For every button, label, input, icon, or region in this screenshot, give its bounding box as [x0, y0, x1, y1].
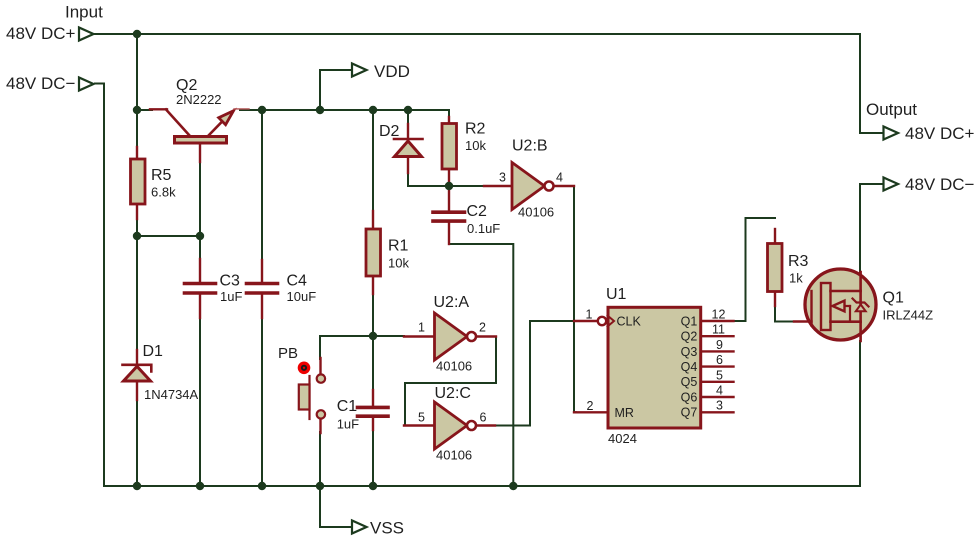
svg-text:D1: D1: [143, 343, 164, 360]
junction oscillator node: [369, 332, 377, 340]
svg-text:R1: R1: [388, 238, 409, 255]
svg-text:Q2: Q2: [681, 330, 698, 344]
junction Q2 collector: [133, 106, 141, 114]
svg-text:C2: C2: [467, 203, 488, 220]
svg-text:C4: C4: [287, 273, 308, 290]
svg-text:1N4734A: 1N4734A: [144, 387, 199, 402]
wire VDD horizontal run: [240, 110, 449, 118]
junction ground rail D1: [133, 482, 141, 490]
svg-text:Q1: Q1: [681, 314, 698, 328]
capacitor C1: [358, 390, 389, 430]
MOSFET Q1: [794, 269, 876, 341]
svg-text:1: 1: [418, 321, 425, 335]
wire emitter node to C4: [261, 110, 263, 261]
capacitor C3: [185, 259, 216, 318]
svg-text:6: 6: [480, 411, 487, 425]
wire node to D2 cathode: [407, 110, 409, 125]
svg-text:IRLZ44Z: IRLZ44Z: [883, 308, 934, 323]
wire R1 bottom to node: [372, 293, 374, 336]
wire oscillator node run: [320, 335, 404, 337]
junction ground rail VSS: [316, 482, 324, 490]
zener diode D1: [123, 350, 152, 400]
wire R3 bottom to Q1 gate: [775, 305, 794, 322]
svg-text:VDD: VDD: [374, 62, 410, 81]
wire output DC+ drop: [860, 34, 883, 133]
svg-text:12: 12: [712, 308, 726, 322]
wire VSS branch: [320, 486, 352, 527]
junction R2 bottom node: [445, 182, 453, 190]
inverter U2:B: [484, 163, 574, 210]
resistor R1: [366, 211, 381, 294]
svg-text:9: 9: [716, 338, 723, 352]
svg-text:1uF: 1uF: [337, 417, 359, 432]
power terminal VSS: [352, 521, 367, 534]
junction ground rail C1: [369, 482, 377, 490]
wire node to PB top: [319, 336, 321, 359]
inverter U2:C: [404, 402, 495, 449]
svg-text:1k: 1k: [789, 271, 803, 286]
svg-text:C1: C1: [337, 398, 358, 415]
svg-text:Q3: Q3: [681, 345, 698, 359]
wire 48V DC+ top rail: [94, 33, 861, 35]
junction VDD tap: [316, 106, 324, 114]
svg-text:U2:B: U2:B: [512, 138, 548, 155]
junction top rail x137: [133, 30, 141, 38]
terminal arrow output 48V DC+: [884, 127, 899, 140]
svg-text:6: 6: [716, 353, 723, 367]
svg-text:2: 2: [587, 399, 594, 413]
terminal arrow output 48V DC-: [884, 178, 899, 191]
svg-text:4024: 4024: [608, 431, 637, 446]
svg-text:D2: D2: [379, 123, 400, 140]
svg-text:10uF: 10uF: [287, 289, 317, 304]
junction Q2 base node: [196, 232, 204, 240]
terminal arrow input 48V DC+: [79, 28, 94, 41]
svg-text:R5: R5: [151, 167, 172, 184]
wire D1 anode to ground rail: [136, 399, 138, 486]
wire R2 node to U2:B input: [449, 185, 484, 187]
wire bottom ground rail: [104, 485, 860, 487]
wire node R5 to Q2 base node: [137, 235, 200, 237]
capacitor C2: [433, 186, 465, 244]
junction ground rail C4: [258, 482, 266, 490]
terminal arrow input 48V DC-: [79, 78, 94, 91]
wire node to C1 top: [372, 336, 374, 391]
svg-text:MR: MR: [615, 406, 634, 420]
transistor Q2: [150, 109, 249, 162]
wire D2 anode to R2 bottom node: [408, 172, 449, 186]
wire Q2 collector stub link: [137, 109, 152, 111]
svg-text:3: 3: [499, 171, 506, 185]
wire C2 bottom to ground drop: [449, 223, 513, 486]
svg-text:4: 4: [716, 384, 723, 398]
counter IC U1 4024: [574, 307, 734, 428]
wire C1 bottom to ground rail: [372, 429, 374, 486]
junction R1 top: [369, 106, 377, 114]
svg-text:6.8k: 6.8k: [151, 185, 176, 200]
wire Q2 emitter link: [248, 109, 262, 111]
wire C4 bottom to ground rail: [261, 317, 263, 486]
wire node to R1 top: [372, 110, 374, 212]
capacitor C4: [247, 260, 278, 318]
resistor R2: [442, 117, 457, 187]
svg-text:CLK: CLK: [617, 315, 642, 329]
resistor R5: [131, 147, 146, 219]
svg-text:48V DC+: 48V DC+: [905, 124, 975, 143]
svg-text:Q4: Q4: [681, 360, 698, 374]
svg-text:Output: Output: [866, 100, 917, 119]
svg-text:0.1uF: 0.1uF: [467, 221, 500, 236]
svg-text:2: 2: [479, 321, 486, 335]
junction Q2 emitter: [258, 106, 266, 114]
svg-text:PB: PB: [278, 345, 298, 362]
power terminal VDD: [352, 64, 367, 77]
svg-text:48V DC−: 48V DC−: [905, 175, 975, 194]
svg-text:3: 3: [716, 399, 723, 413]
svg-text:U2:A: U2:A: [434, 294, 470, 311]
wire U1 Q1 pin to R3 top: [734, 218, 776, 321]
svg-text:Q1: Q1: [883, 290, 904, 307]
junction D2 cathode: [404, 106, 412, 114]
svg-text:U1: U1: [606, 286, 627, 303]
wire PB bottom to ground rail: [319, 432, 321, 486]
wire VDD branch: [320, 70, 352, 110]
wire U2:A output feedback to U2:C input: [405, 337, 496, 426]
svg-text:40106: 40106: [436, 448, 472, 463]
svg-text:C3: C3: [220, 273, 241, 290]
diode D2: [394, 124, 423, 173]
svg-text:Q7: Q7: [681, 406, 698, 420]
svg-text:Q6: Q6: [681, 390, 698, 404]
wire U2:B output to U1 MR: [573, 186, 576, 412]
wire R5 bottom to node: [136, 218, 138, 351]
svg-text:10k: 10k: [388, 256, 409, 271]
svg-text:U2:C: U2:C: [435, 385, 471, 402]
svg-text:11: 11: [712, 323, 725, 337]
svg-text:5: 5: [716, 368, 723, 382]
svg-text:40106: 40106: [436, 359, 472, 374]
svg-text:2N2222: 2N2222: [176, 92, 222, 107]
svg-text:48V DC−: 48V DC−: [6, 74, 76, 93]
svg-text:48V DC+: 48V DC+: [6, 24, 76, 43]
resistor R3: [768, 229, 783, 306]
svg-text:VSS: VSS: [370, 519, 404, 538]
wire top rail to Q2 collector node: [136, 34, 138, 148]
svg-text:5: 5: [418, 411, 425, 425]
svg-text:R2: R2: [465, 121, 486, 138]
pushbutton PB: [298, 358, 325, 433]
junction ground rail C2 drop: [509, 482, 517, 490]
junction R5 bottom: [133, 232, 141, 240]
junction ground rail C3: [196, 482, 204, 490]
wire Q2 base down: [199, 161, 201, 260]
inverter U2:A: [404, 313, 496, 360]
wire output DC- to Q1 drain: [860, 184, 883, 272]
svg-text:4: 4: [556, 171, 563, 185]
svg-text:R3: R3: [788, 253, 809, 270]
wire 48V DC- input to left rail: [95, 84, 104, 487]
svg-text:1uF: 1uF: [220, 289, 242, 304]
wire U2:C output to U1 CLK: [494, 321, 574, 426]
svg-text:10k: 10k: [465, 138, 486, 153]
svg-text:Input: Input: [65, 3, 103, 22]
svg-text:1: 1: [586, 308, 593, 322]
wire Q1 source to ground rail: [859, 341, 861, 486]
wire C3 bottom to ground rail: [199, 317, 201, 486]
svg-text:40106: 40106: [518, 205, 554, 220]
svg-text:Q5: Q5: [681, 375, 698, 389]
